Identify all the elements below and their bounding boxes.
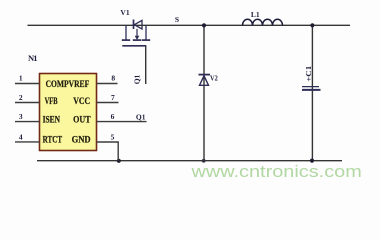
pin number 8 [111, 74, 115, 83]
label V1 [120, 8, 129, 17]
svg-text:RTCT: RTCT [43, 134, 63, 144]
pin 8 wire [97, 83, 118, 85]
node junction dot bottom C1 [310, 159, 314, 163]
label +C1 (rotated) [304, 66, 313, 82]
pin number 6 [111, 112, 115, 121]
svg-text:4: 4 [19, 133, 23, 142]
pin number 4 [19, 133, 23, 142]
IC pin label row COMP VREF [46, 79, 90, 89]
capacitor C1 (polarized) [302, 87, 321, 90]
IC pin label VCC [73, 96, 90, 106]
pin number 7 [111, 93, 115, 102]
pin 3 wire [15, 121, 40, 123]
svg-text:V2: V2 [210, 74, 218, 82]
svg-text:L1: L1 [251, 10, 260, 19]
svg-text:5: 5 [111, 133, 115, 142]
net label Q1 at gate (rotated) [132, 74, 141, 84]
svg-text:2: 2 [19, 93, 23, 102]
transistor V1 MOSFET switch [122, 20, 150, 85]
pin number 1 [19, 74, 23, 83]
svg-text:+C1: +C1 [304, 66, 313, 82]
node junction dot top C1 [310, 23, 314, 27]
wire C1 branch [311, 25, 313, 160]
label V2 [210, 74, 218, 82]
svg-text:8: 8 [111, 74, 115, 83]
node label S [175, 15, 179, 24]
pin 1 wire [15, 83, 40, 85]
IC pin label OUT [73, 115, 91, 125]
IC pin label ISEN [43, 115, 61, 125]
pin 5 wire to ground rail [97, 142, 119, 161]
svg-text:3: 3 [19, 112, 23, 121]
label N1 [28, 53, 38, 63]
node junction dot bottom V2 [202, 159, 206, 163]
svg-text:6: 6 [111, 112, 115, 121]
svg-text:www.cntronics.com: www.cntronics.com [190, 163, 362, 181]
svg-text:VCC: VCC [73, 96, 90, 106]
pin number 3 [19, 112, 23, 121]
wire bottom ground rail [37, 160, 342, 162]
svg-text:COMPVREF: COMPVREF [46, 79, 90, 89]
wire top rail (input to output) [28, 24, 351, 26]
IC U1 body (controller N1) [40, 74, 97, 151]
svg-text:ISEN: ISEN [43, 115, 61, 125]
svg-text:OUT: OUT [73, 115, 91, 125]
pin number 2 [19, 93, 23, 102]
pin 2 wire [15, 102, 40, 104]
pin number 5 [111, 133, 115, 142]
node junction dot top V2 [202, 23, 206, 27]
IC pin label RTCT [43, 134, 63, 144]
IC pin label GND [72, 134, 91, 144]
svg-text:7: 7 [111, 93, 115, 102]
svg-text:Q1: Q1 [132, 74, 141, 84]
wire V2 branch [203, 25, 205, 160]
svg-text:N1: N1 [28, 53, 38, 63]
net label Q1 at pin 6 [136, 112, 146, 121]
svg-text:GND: GND [72, 134, 91, 144]
diode V2 [199, 75, 211, 86]
node junction dot bottom pin5 [117, 159, 121, 163]
watermark www.cntronics.com [190, 163, 362, 181]
pin 4 wire [15, 141, 40, 143]
svg-text:1: 1 [19, 74, 23, 83]
pin 6 wire (OUT net Q1) [97, 121, 147, 123]
pin 7 wire [97, 102, 119, 104]
inductor L1 [243, 19, 283, 25]
label L1 [251, 10, 260, 19]
svg-text:V1: V1 [120, 8, 129, 17]
svg-text:S: S [175, 15, 179, 24]
svg-text:Q1: Q1 [136, 112, 146, 121]
svg-text:VFB: VFB [45, 96, 58, 106]
IC pin label VFB [45, 96, 58, 106]
